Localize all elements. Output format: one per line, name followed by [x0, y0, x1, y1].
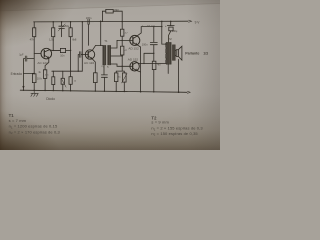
svg-text:n2 = 150 espiras de 0,35: n2 = 150 espiras de 0,35 [151, 131, 198, 137]
svg-text:T2: T2 [168, 37, 172, 41]
svg-text:100μ: 100μ [172, 30, 178, 33]
svg-text:Parlante: Parlante [185, 51, 199, 55]
svg-text:n2 = 2 × 170 espiras de 0,3: n2 = 2 × 170 espiras de 0,3 [9, 129, 61, 135]
svg-text:AC 116: AC 116 [84, 61, 94, 65]
svg-text:n₁: n₁ [102, 66, 104, 68]
svg-text:10 k: 10 k [37, 77, 43, 81]
svg-text:1,5k: 1,5k [49, 37, 55, 41]
svg-text:50μ: 50μ [65, 24, 70, 28]
svg-text:6k8: 6k8 [72, 37, 77, 41]
svg-text:I → 10 mA: I → 10 mA [142, 24, 155, 28]
svg-text:AD 152: AD 152 [128, 57, 139, 61]
svg-text:1Ω: 1Ω [203, 51, 208, 55]
svg-text:Entrada: Entrada [11, 72, 22, 76]
svg-text:100n: 100n [142, 42, 148, 46]
svg-text:4k7: 4k7 [157, 63, 162, 66]
svg-text:s = 7 mm: s = 7 mm [9, 118, 27, 123]
svg-text:AD 152: AD 152 [128, 47, 139, 51]
svg-text:100n: 100n [86, 16, 92, 20]
svg-text:10n: 10n [60, 55, 65, 58]
svg-text:Diodo: Diodo [46, 97, 55, 101]
svg-text:+: + [165, 24, 167, 28]
svg-text:AC 122: AC 122 [37, 61, 48, 65]
svg-text:47k: 47k [30, 37, 35, 41]
svg-text:1μF: 1μF [19, 53, 24, 56]
svg-text:n₂: n₂ [107, 66, 109, 68]
svg-text:840: 840 [114, 8, 119, 12]
svg-text:s = 9 mm: s = 9 mm [151, 120, 169, 125]
svg-text:T1: T1 [104, 39, 108, 43]
